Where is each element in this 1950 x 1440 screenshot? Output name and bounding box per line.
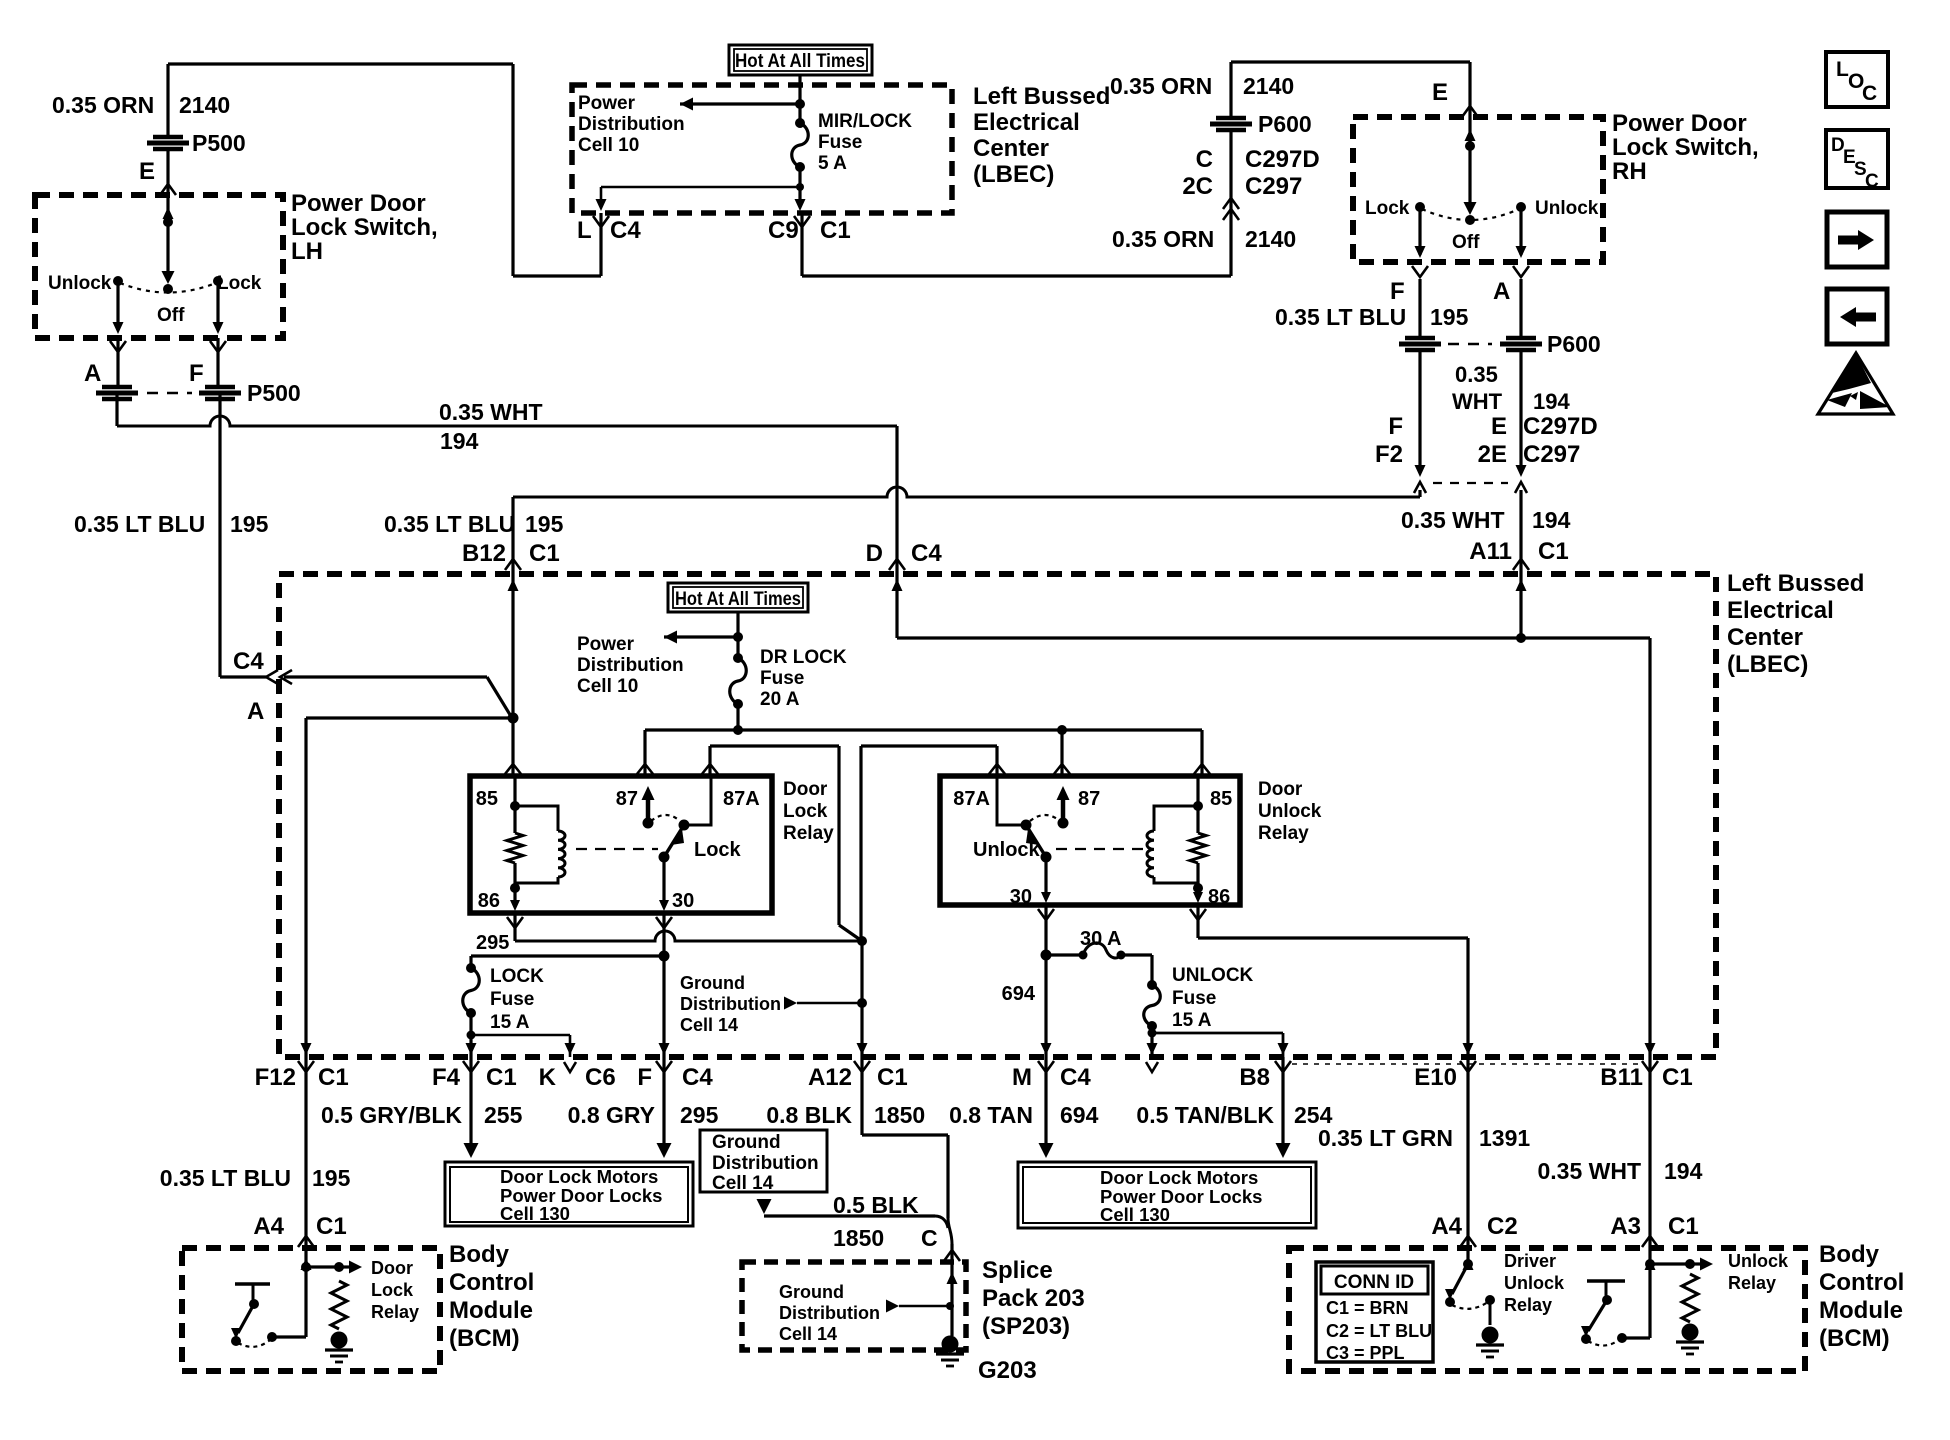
svg-text:C1: C1 [877,1064,908,1091]
194 rail down to B11 [1648,638,1651,1057]
wire lock 30 down to F/C4 [662,913,665,1057]
svg-text:P500: P500 [192,130,246,156]
svg-text:Door Lock Motors: Door Lock Motors [500,1166,658,1187]
LOCK fuse out [469,1013,472,1057]
svg-text:C4: C4 [233,648,264,675]
svg-text:Fuse: Fuse [1172,988,1216,1009]
icon left arrow box [1827,289,1887,344]
svg-text:Control: Control [1819,1269,1904,1296]
wire to G203 ground [950,1262,953,1336]
wire: x168 down to P500 [166,64,169,136]
svg-text:295: 295 [680,1102,719,1128]
svg-text:0.8 GRY: 0.8 GRY [568,1102,655,1128]
svg-text:0.35: 0.35 [1455,362,1498,387]
svg-text:86: 86 [1208,886,1230,908]
svg-text:Lock Switch,: Lock Switch, [291,214,438,241]
svg-text:Unlock: Unlock [1504,1273,1565,1293]
svg-text:L: L [577,217,592,244]
unlock relay blade [1026,825,1046,857]
svg-text:Center: Center [1727,624,1803,651]
svg-text:Lock Switch,: Lock Switch, [1612,134,1759,161]
svg-text:0.35 WHT: 0.35 WHT [1537,1158,1641,1184]
svg-text:0.35 WHT: 0.35 WHT [439,399,543,425]
svg-text:Power Door: Power Door [291,190,426,217]
svg-text:Power Door: Power Door [1612,110,1747,137]
svg-text:Door: Door [371,1258,413,1278]
svg-text:WHT: WHT [1452,389,1503,414]
unlock fuse out / B8 branch [1148,1029,1157,1038]
drop to lock 85... B12 node [511,718,514,776]
svg-text:87A: 87A [953,788,990,810]
svg-text:A: A [247,698,264,725]
svg-text:A4: A4 [253,1213,284,1240]
svg-text:C297D: C297D [1523,413,1598,440]
svg-text:F: F [637,1064,652,1091]
svg-text:Unlock: Unlock [973,839,1041,861]
87A ground drop right [859,746,862,941]
svg-text:Door Lock Motors: Door Lock Motors [1100,1167,1258,1188]
unlock relay sketch [1648,1248,1651,1264]
C297 inline connector chevrons [1415,465,1426,477]
svg-text:0.35 ORN: 0.35 ORN [52,92,154,118]
terminal E of RH switch [1462,106,1478,117]
svg-text:87A: 87A [723,788,760,810]
svg-text:Control: Control [449,1269,534,1296]
svg-text:C4: C4 [911,540,942,567]
hot at all times box (top) [729,45,872,75]
unlock relay 87 contact [1061,792,1066,823]
svg-text:2C: 2C [1182,173,1213,200]
svg-text:Lock: Lock [694,839,742,861]
svg-text:C297D: C297D [1245,146,1320,173]
svg-text:Ground: Ground [779,1282,844,1302]
svg-text:MIR/LOCK: MIR/LOCK [818,111,912,132]
svg-text:15 A: 15 A [490,1012,530,1033]
power door lock switch RH box [1353,117,1603,262]
driver unlock relay sketch [1466,1248,1469,1264]
wire 195 from F2 to LBEC B12 [1418,490,1421,497]
svg-text:C2 = LT BLU: C2 = LT BLU [1326,1321,1432,1341]
power distribution stub arrow (mid) [664,631,677,644]
RH lock output [1418,210,1421,255]
svg-text:B8: B8 [1239,1064,1270,1091]
svg-text:Fuse: Fuse [760,668,804,689]
svg-text:F4: F4 [432,1064,461,1091]
svg-text:1850: 1850 [833,1225,884,1251]
svg-text:C4: C4 [1060,1064,1091,1091]
unlock relay bottom terminals [1038,909,1054,920]
svg-text:0.35 LT BLU: 0.35 LT BLU [74,511,205,537]
svg-text:C9: C9 [768,217,799,244]
LH switch dashed wiper arc [120,283,216,293]
svg-text:694: 694 [1002,983,1036,1005]
D wire to 194 rail [895,574,898,638]
ground G203 [942,1336,959,1353]
svg-text:Door: Door [783,779,828,800]
svg-text:2E: 2E [1478,441,1507,468]
svg-text:B12: B12 [462,540,506,567]
svg-text:1850: 1850 [874,1102,925,1128]
door lock motors box (right) [1018,1162,1316,1228]
LBEC bottom terminal x=664 [659,1043,670,1055]
svg-text:2140: 2140 [1245,226,1296,252]
wire 194 from 2E down to A11 [1519,490,1522,574]
svg-text:A: A [1493,278,1510,305]
svg-text:694: 694 [1060,1102,1099,1128]
svg-text:F: F [1390,278,1405,305]
svg-text:A3: A3 [1610,1213,1641,1240]
LBEC top terminals B12, D, A11 [505,559,521,570]
terminal C4/A chevrons on LBEC left edge [266,670,278,684]
wire 295: 86 to ground node [513,913,516,941]
svg-text:M: M [1012,1064,1032,1091]
left bussed electrical center main box [279,574,1716,1057]
wire 195 LT BLU from LH-F down [218,393,221,677]
wire 1391 E10 to BCM A4 [1466,1057,1469,1248]
svg-text:Unlock: Unlock [1728,1251,1789,1271]
svg-text:A4: A4 [1431,1213,1462,1240]
0.5 BLK branch w/ arrow [757,1199,772,1214]
LH unlock output wire [116,284,119,330]
wire L/C4 down-left to x513 [599,213,602,276]
wire 194 D drop [895,426,898,574]
terminals L/C4 and C9/C1 [593,216,609,227]
RH unlock output [1519,210,1522,255]
lock relay 86 out [513,888,516,905]
dashed contact arc [651,815,680,821]
wire C9/C1 to RH switch feed [800,213,803,276]
A11 wire joins 194 rail [1519,574,1522,638]
svg-text:(LBEC): (LBEC) [973,161,1054,188]
svg-text:Lock: Lock [783,801,828,822]
wire 194 WHT from LH-A [115,393,118,426]
svg-text:2140: 2140 [1243,73,1294,99]
svg-text:0.35 LT BLU: 0.35 LT BLU [384,511,515,537]
BCM-L input node [304,1248,307,1267]
svg-text:Cell 14: Cell 14 [779,1324,837,1344]
svg-text:E: E [1432,79,1448,106]
svg-text:Distribution: Distribution [779,1303,880,1323]
svg-text:194: 194 [440,428,479,454]
svg-text:C6: C6 [585,1064,616,1091]
lock relay blade [664,825,684,857]
wire C4-A to node [284,675,487,678]
svg-text:P500: P500 [247,380,301,406]
svg-text:(BCM): (BCM) [1819,1325,1890,1352]
ground distribution cell14 box [700,1130,827,1192]
splice pack terminal C [944,1250,960,1261]
svg-text:Relay: Relay [783,823,834,844]
svg-text:195: 195 [1430,304,1469,330]
svg-text:0.35 WHT: 0.35 WHT [1401,507,1505,533]
lock relay bottom terminals [507,917,523,928]
unlock relay coil branch [1196,776,1199,806]
svg-text:0.35 LT BLU: 0.35 LT BLU [160,1165,291,1191]
svg-text:15 A: 15 A [1172,1010,1212,1031]
svg-text:Door: Door [1258,779,1303,800]
svg-text:C: C [1865,171,1879,192]
LBEC bottom terminal x=306 [301,1043,312,1055]
svg-text:0.5 BLK: 0.5 BLK [833,1192,919,1218]
svg-text:0.5 TAN/BLK: 0.5 TAN/BLK [1136,1102,1274,1128]
LOCK fuse 15A [466,963,476,973]
terminal E of LH switch [160,184,176,195]
svg-text:C: C [921,1225,938,1251]
door lock motors box (left) [445,1162,693,1226]
connector P600 single [1216,116,1246,121]
BCM-L signal arrow [306,1265,339,1268]
CONN ID table [1316,1262,1433,1362]
svg-text:(BCM): (BCM) [449,1325,520,1352]
icon ESD symbol [1818,353,1893,414]
svg-text:E10: E10 [1414,1064,1457,1091]
dashed contact arc (unlock) [1030,815,1060,821]
svg-text:0.8 TAN: 0.8 TAN [949,1102,1033,1128]
svg-text:Fuse: Fuse [490,989,534,1010]
svg-text:Module: Module [449,1297,533,1324]
svg-text:0.8 BLK: 0.8 BLK [766,1102,852,1128]
wire 694: unlock 30 down [1044,905,1047,1057]
svg-text:Module: Module [1819,1297,1903,1324]
87A link rail right segment [861,744,997,747]
svg-text:Left Bussed: Left Bussed [1727,570,1864,597]
lock relay 87A path [686,776,711,825]
lock relay 30 out [662,857,665,905]
svg-text:30 A: 30 A [1080,928,1122,950]
wire 254 to motors [1281,1057,1284,1146]
LH terminals A and F [110,341,126,352]
svg-text:195: 195 [230,511,269,537]
wires down to C297 [1418,352,1421,472]
svg-text:30: 30 [1010,886,1032,908]
branch to L/C4 [601,186,800,189]
svg-text:F: F [189,360,204,387]
svg-text:K: K [539,1064,557,1091]
svg-text:Distribution: Distribution [680,994,781,1014]
svg-text:C1: C1 [1668,1213,1699,1240]
svg-text:Cell 14: Cell 14 [680,1015,738,1035]
splice pack 203 box [742,1262,966,1350]
svg-text:B11: B11 [1600,1064,1643,1091]
svg-text:C2: C2 [1487,1213,1518,1240]
icon DESC box [1826,130,1888,188]
connector C1 dotted face line [1292,1063,1645,1065]
svg-text:Relay: Relay [1258,823,1309,844]
drop to unlock 87 [1060,730,1063,776]
wire 194 B11 to BCM A3 [1648,1057,1651,1248]
LH lock output wire [216,284,219,330]
svg-text:UNLOCK: UNLOCK [1172,965,1254,986]
svg-text:C1: C1 [1538,538,1569,565]
wire: ORN 2140 top horizontal LH [168,62,513,65]
87A link rail left segment [710,744,839,747]
wire into LBEC C4-A [220,675,266,678]
svg-text:85: 85 [1210,788,1232,810]
svg-text:A11: A11 [1469,538,1512,565]
connector P500 (single, top left) [153,135,183,140]
svg-text:Cell 10: Cell 10 [577,676,638,697]
LH switch common wire [166,195,169,222]
dashed actuator link (unlock) [1056,848,1143,850]
svg-text:0.5 GRY/BLK: 0.5 GRY/BLK [321,1102,462,1128]
wire 255 to motors [469,1057,472,1146]
svg-text:Relay: Relay [1504,1295,1552,1315]
svg-text:1391: 1391 [1479,1125,1530,1151]
svg-text:194: 194 [1532,507,1571,533]
power distribution LBEC box (top) [572,85,952,213]
svg-text:A: A [84,360,101,387]
svg-text:G203: G203 [978,1357,1037,1384]
svg-text:(SP203): (SP203) [982,1313,1070,1340]
drop to lock 87 [643,730,646,776]
wire x1231 ORN riser [1229,131,1232,276]
unlock relay 86 out [1196,888,1199,897]
wires down to P500 pair [116,338,119,386]
svg-text:0.35 ORN: 0.35 ORN [1112,226,1214,252]
svg-text:Ground: Ground [712,1132,781,1153]
svg-text:Electrical: Electrical [973,109,1080,136]
svg-text:195: 195 [312,1165,351,1191]
connector P500 pair [102,385,132,390]
svg-text:Cell 14: Cell 14 [712,1173,774,1194]
svg-text:C1: C1 [316,1213,347,1240]
svg-text:E: E [139,158,155,185]
wire 1850 A12 to splice [860,1057,863,1135]
wire hot2 to DR LOCK fuse [736,612,739,658]
svg-text:P600: P600 [1258,111,1312,137]
svg-text:C: C [1862,82,1877,105]
BCM A3/C1 terminal [1642,1236,1658,1247]
unlock relay 30 out [1044,857,1047,897]
svg-text:A12: A12 [808,1064,852,1091]
svg-text:C1: C1 [1662,1064,1693,1091]
body control module box (right) [1289,1248,1805,1371]
power distribution stub arrow (top) [680,98,693,111]
unlock relay 87A path [997,776,1024,825]
LBEC stub terminal K/C6 [565,1043,576,1055]
B12 wire into node [511,574,514,718]
door lock relay box [470,776,772,913]
lock relay 87 contact [646,792,651,823]
icon right arrow box [1827,212,1887,267]
svg-text:C297: C297 [1523,441,1580,468]
svg-text:C1: C1 [318,1064,349,1091]
svg-text:Cell 10: Cell 10 [578,135,639,156]
terminal 2C chevron [1223,198,1239,209]
svg-text:Cell 130: Cell 130 [500,1203,570,1224]
svg-text:30: 30 [672,890,694,912]
MIR/LOCK fuse 5A [795,118,805,128]
node A horizontal to F12 drop [306,716,513,719]
svg-text:20 A: 20 A [760,689,800,710]
RH terminals F and A [1412,266,1428,277]
LBEC bottom terminal x=862 [857,1043,868,1055]
svg-text:Lock: Lock [1365,198,1410,219]
LBEC stub terminal (unlock fuse) [1147,1043,1158,1055]
svg-text:C1: C1 [529,540,560,567]
svg-text:Off: Off [1452,232,1480,253]
wire P600 to top [1229,62,1232,117]
svg-text:RH: RH [1612,158,1647,185]
wires to P600 pair [1418,279,1421,336]
svg-text:Lock: Lock [217,273,262,294]
door unlock relay box [940,776,1240,905]
svg-text:87: 87 [1078,788,1100,810]
body control module box (left) [182,1248,440,1371]
svg-text:F2: F2 [1375,441,1403,468]
svg-text:F12: F12 [255,1064,296,1091]
svg-text:C4: C4 [610,217,641,244]
svg-text:LH: LH [291,238,323,265]
svg-text:Driver: Driver [1504,1251,1556,1271]
svg-text:87: 87 [616,788,638,810]
LBEC bottom terminal x=1650 [1645,1043,1656,1055]
svg-text:C1: C1 [486,1064,517,1091]
svg-text:Fuse: Fuse [818,132,862,153]
svg-text:Distribution: Distribution [578,114,685,135]
BCM A4 terminal [298,1236,314,1247]
branch to K/C6 [471,1034,570,1037]
svg-text:Splice: Splice [982,1257,1053,1284]
87A ground drop left [837,746,840,925]
svg-text:P600: P600 [1547,331,1601,357]
svg-text:Relay: Relay [371,1302,419,1322]
svg-text:(LBEC): (LBEC) [1727,651,1808,678]
svg-text:C1 = BRN: C1 = BRN [1326,1298,1409,1318]
svg-text:Body: Body [449,1241,510,1268]
DR LOCK fuse 20A [733,653,743,663]
svg-text:5 A: 5 A [818,153,847,174]
svg-text:F: F [1388,413,1403,440]
wire 86 to E10 [1196,905,1199,938]
LBEC bottom terminal x=1468 [1463,1043,1474,1055]
svg-text:C3 = PPL: C3 = PPL [1326,1343,1405,1363]
svg-text:LOCK: LOCK [490,966,544,987]
svg-text:Off: Off [157,305,185,326]
svg-text:85: 85 [476,788,498,810]
BCM-L resistor to ground [331,1281,347,1329]
svg-text:0.35 ORN: 0.35 ORN [1110,73,1212,99]
svg-text:Electrical: Electrical [1727,597,1834,624]
svg-text:Pack 203: Pack 203 [982,1285,1085,1312]
svg-text:C: C [1196,146,1213,173]
svg-text:Cell 130: Cell 130 [1100,1204,1170,1225]
fuse out to feed rail [736,704,739,730]
svg-text:194: 194 [1533,389,1570,414]
svg-text:Unlock: Unlock [1535,198,1599,219]
svg-text:D: D [866,540,883,567]
svg-text:2140: 2140 [179,92,230,118]
wire hot to fuse [798,75,801,122]
BCM A4/C2 terminal [1460,1236,1476,1247]
svg-text:Distribution: Distribution [577,655,684,676]
wire 694 to motors [1044,1057,1047,1146]
icon LOC box [1826,52,1888,107]
LOCK fuse feed line [471,954,664,957]
svg-text:E: E [1491,413,1507,440]
connector P600 pair [1405,336,1435,341]
svg-text:Distribution: Distribution [712,1153,819,1174]
fuse output down [798,167,801,205]
svg-text:C1: C1 [820,217,851,244]
RH switch common [1468,117,1471,146]
dashed actuator link [576,848,658,850]
LBEC bottom terminal x=1283 [1278,1043,1289,1055]
svg-text:86: 86 [478,890,500,912]
svg-text:295: 295 [476,932,509,954]
svg-text:Relay: Relay [1728,1273,1776,1293]
svg-text:Unlock: Unlock [1258,801,1322,822]
